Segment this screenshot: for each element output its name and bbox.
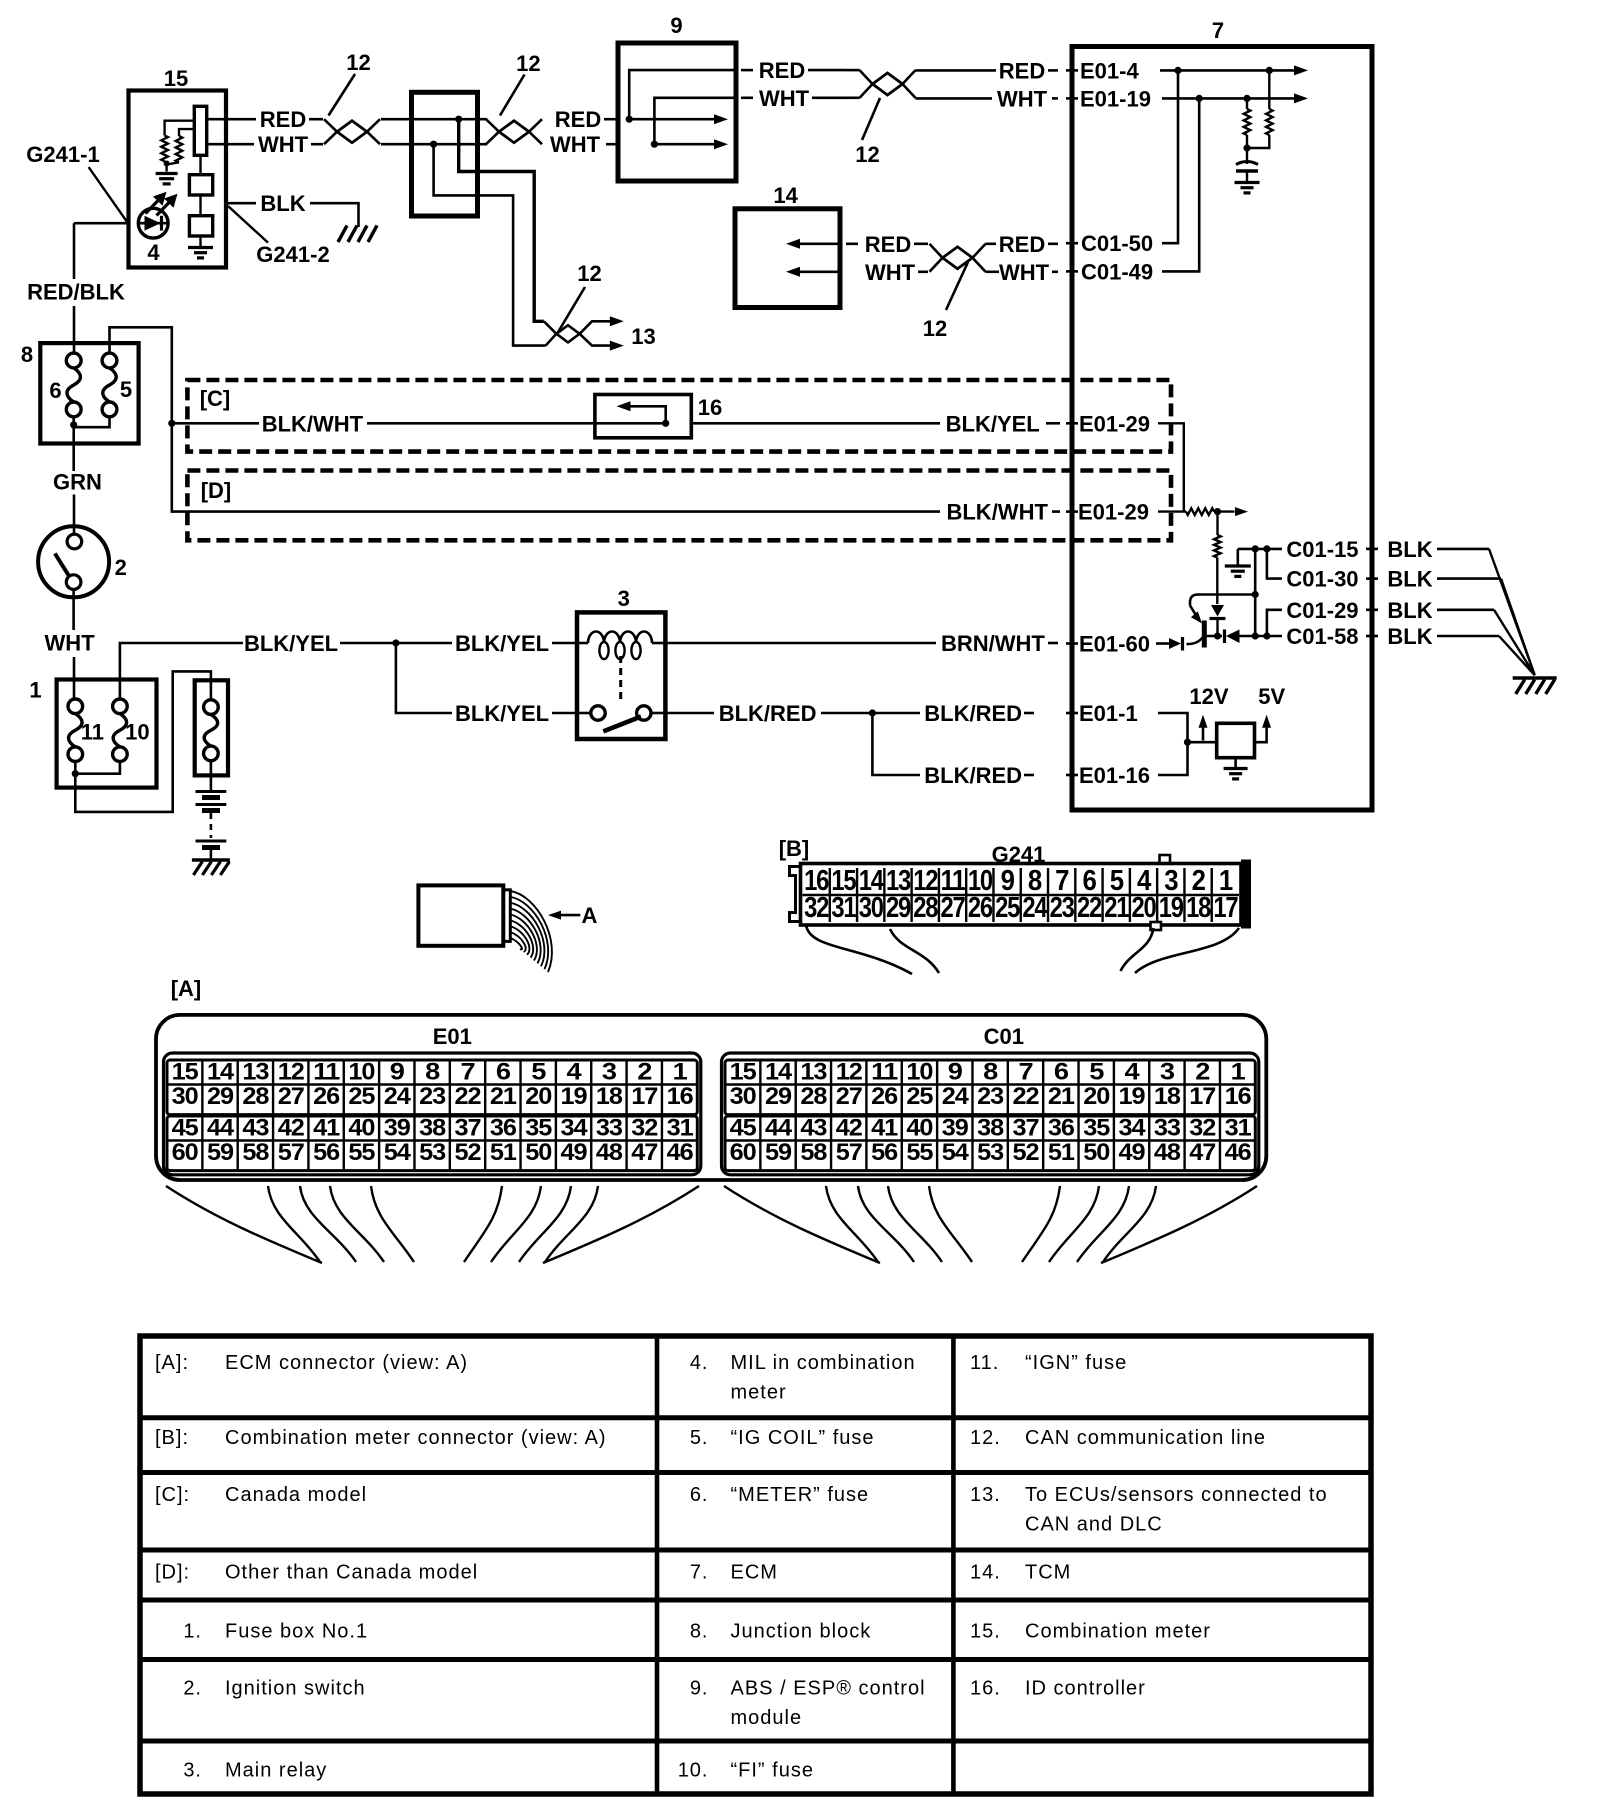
svg-text:E01: E01 [433, 1024, 472, 1049]
svg-text:58: 58 [242, 1139, 269, 1166]
pin E01-4 [1066, 69, 1078, 72]
wire fuse bottoms join [72, 417, 75, 426]
ground (BLK) [338, 226, 347, 243]
svg-text:15: 15 [164, 66, 188, 91]
svg-text:4: 4 [1125, 1059, 1141, 1086]
svg-text:5: 5 [120, 377, 132, 402]
svg-text:31: 31 [1225, 1115, 1252, 1142]
svg-text:33: 33 [1154, 1115, 1181, 1142]
pin E01-60 [1066, 642, 1078, 645]
svg-text:21: 21 [490, 1083, 517, 1110]
svg-text:5.: 5. [690, 1427, 709, 1449]
svg-text:60: 60 [172, 1139, 199, 1166]
svg-text:CAN communication line: CAN communication line [1025, 1427, 1266, 1449]
svg-text:E01-60: E01-60 [1079, 632, 1150, 657]
svg-text:RED: RED [999, 232, 1045, 257]
svg-text:7: 7 [1019, 1059, 1034, 1086]
svg-text:15: 15 [172, 1059, 199, 1086]
svg-text:12: 12 [836, 1059, 863, 1086]
svg-text:26: 26 [871, 1083, 898, 1110]
svg-text:13: 13 [800, 1059, 827, 1086]
connector [A] outer shell [156, 1015, 1266, 1180]
svg-text:20: 20 [1132, 892, 1156, 924]
svg-text:16.: 16. [970, 1677, 1001, 1699]
svg-text:39: 39 [942, 1115, 969, 1142]
svg-text:E01-4: E01-4 [1080, 58, 1139, 83]
regulator box [1217, 723, 1255, 757]
svg-text:BLK/YEL: BLK/YEL [946, 411, 1040, 436]
svg-text:6: 6 [1054, 1059, 1069, 1086]
svg-text:8: 8 [425, 1059, 440, 1086]
svg-text:12: 12 [923, 316, 947, 341]
svg-text:BLK/WHT: BLK/WHT [946, 500, 1048, 525]
relay dashed actuator line [619, 656, 622, 704]
svg-text:G241-1: G241-1 [26, 142, 99, 167]
svg-text:54: 54 [942, 1139, 970, 1166]
svg-text:[C]: [C] [200, 386, 231, 411]
svg-text:Combination meter: Combination meter [1025, 1620, 1211, 1642]
diode on E01-60 line [1156, 642, 1169, 645]
svg-text:2: 2 [637, 1059, 652, 1086]
legend table [140, 1336, 1371, 1794]
svg-text:14: 14 [765, 1059, 793, 1086]
svg-text:37: 37 [455, 1115, 482, 1142]
svg-text:51: 51 [1048, 1139, 1075, 1166]
svg-text:49: 49 [561, 1139, 588, 1166]
svg-text:Fuse box No.1: Fuse box No.1 [225, 1620, 368, 1642]
svg-text:ID controller: ID controller [1025, 1677, 1146, 1699]
diode (vertical, down) [1211, 605, 1224, 617]
svg-text:53: 53 [419, 1139, 446, 1166]
svg-text:58: 58 [800, 1139, 827, 1166]
wire E01-4 arrow [1160, 69, 1295, 72]
svg-text:13: 13 [242, 1059, 269, 1086]
main relay 3 [577, 612, 665, 739]
arrow into TCM (RED) [790, 243, 840, 246]
svg-text:11.: 11. [970, 1352, 999, 1374]
svg-text:C01: C01 [984, 1024, 1024, 1049]
svg-text:BLK/YEL: BLK/YEL [244, 631, 338, 656]
svg-text:meter: meter [731, 1382, 787, 1404]
svg-text:53: 53 [977, 1139, 1004, 1166]
svg-text:35: 35 [525, 1115, 552, 1142]
svg-text:16: 16 [667, 1083, 694, 1110]
svg-text:12: 12 [516, 51, 540, 76]
svg-text:26: 26 [313, 1083, 340, 1110]
svg-text:57: 57 [836, 1139, 863, 1166]
svg-text:18: 18 [596, 1083, 623, 1110]
svg-text:4: 4 [147, 240, 160, 265]
svg-text:3.: 3. [183, 1759, 202, 1781]
svg-text:BLK: BLK [1387, 567, 1432, 592]
wire C01-50 up to E01-4 [1162, 70, 1178, 243]
svg-text:27: 27 [278, 1083, 305, 1110]
transistor Q (MIL driver) [1202, 621, 1207, 648]
svg-text:17: 17 [1213, 892, 1237, 924]
wire WHT out right [741, 97, 753, 100]
svg-text:C01-29: C01-29 [1286, 598, 1358, 623]
svg-text:C01-15: C01-15 [1286, 537, 1358, 562]
wire BLK/RED bottom [872, 713, 920, 775]
vertical bus C01-15/58 [1254, 549, 1257, 636]
dashed box [D] other than Canada [187, 471, 1171, 541]
svg-text:55: 55 [348, 1139, 375, 1166]
svg-text:C01-49: C01-49 [1081, 259, 1153, 284]
svg-text:47: 47 [631, 1139, 658, 1166]
connector bar inside 15 [194, 106, 206, 155]
5V arrow [1255, 722, 1267, 742]
svg-text:52: 52 [455, 1139, 482, 1166]
resistor R in meter 2 [176, 136, 183, 162]
svg-text:52: 52 [1013, 1139, 1040, 1166]
relay switch [591, 706, 605, 720]
svg-text:12.: 12. [970, 1427, 1001, 1449]
svg-text:5: 5 [531, 1059, 546, 1086]
svg-text:Canada model: Canada model [225, 1484, 367, 1506]
svg-text:1: 1 [1231, 1059, 1246, 1086]
ECM box 7 [1072, 47, 1372, 811]
svg-text:4.: 4. [690, 1352, 709, 1374]
svg-text:39: 39 [384, 1115, 411, 1142]
CAN twist 12 (D) [930, 244, 986, 272]
wire branch down (WHT) [434, 144, 546, 345]
svg-text:25: 25 [906, 1083, 933, 1110]
wire BLK/WHT [C] [168, 420, 175, 427]
svg-text:17: 17 [631, 1083, 658, 1110]
svg-text:28: 28 [913, 892, 938, 924]
capacitor [1246, 148, 1248, 164]
svg-text:“FI” fuse: “FI” fuse [731, 1759, 814, 1781]
svg-text:E01-29: E01-29 [1079, 411, 1150, 436]
svg-text:29: 29 [765, 1083, 792, 1110]
svg-text:50: 50 [1083, 1139, 1110, 1166]
svg-text:1.: 1. [183, 1620, 202, 1642]
svg-text:9: 9 [948, 1059, 963, 1086]
svg-text:RED: RED [759, 58, 805, 83]
svg-text:33: 33 [596, 1115, 623, 1142]
svg-text:23: 23 [1050, 892, 1075, 924]
ground under battery [192, 858, 230, 861]
svg-text:ABS / ESP® control: ABS / ESP® control [731, 1677, 926, 1699]
svg-text:28: 28 [242, 1083, 269, 1110]
svg-text:C01-50: C01-50 [1081, 231, 1153, 256]
svg-text:12: 12 [346, 50, 370, 75]
svg-text:37: 37 [1013, 1115, 1040, 1142]
svg-text:[B]:: [B]: [155, 1427, 189, 1449]
svg-text:40: 40 [906, 1115, 933, 1142]
svg-text:36: 36 [1048, 1115, 1075, 1142]
svg-text:17: 17 [1189, 1083, 1216, 1110]
combination meter box 15 [129, 91, 227, 268]
svg-text:C01-30: C01-30 [1286, 567, 1358, 592]
svg-text:6.: 6. [690, 1484, 709, 1506]
svg-text:BLK: BLK [1387, 624, 1432, 649]
svg-text:12V: 12V [1189, 684, 1228, 709]
svg-text:“IG COIL” fuse: “IG COIL” fuse [731, 1427, 875, 1449]
svg-text:“IGN” fuse: “IGN” fuse [1025, 1352, 1127, 1374]
ground under capacitor [1235, 181, 1260, 184]
svg-text:8: 8 [983, 1059, 998, 1086]
fuse (main) [204, 700, 219, 715]
svg-text:36: 36 [490, 1115, 517, 1142]
fuse box 1 [57, 680, 157, 788]
E01 pin grid [164, 1053, 701, 1175]
svg-text:47: 47 [1189, 1139, 1216, 1166]
svg-text:46: 46 [1225, 1139, 1252, 1166]
svg-text:BLK/YEL: BLK/YEL [455, 631, 549, 656]
pin E01-19 [1066, 97, 1078, 100]
svg-text:15: 15 [730, 1059, 757, 1086]
svg-text:34: 34 [561, 1115, 589, 1142]
svg-text:31: 31 [667, 1115, 694, 1142]
svg-text:WHT: WHT [550, 132, 601, 157]
collector line to junction [1252, 591, 1259, 598]
svg-text:23: 23 [419, 1083, 446, 1110]
svg-text:6: 6 [496, 1059, 511, 1086]
svg-text:19: 19 [561, 1083, 588, 1110]
svg-text:14.: 14. [970, 1562, 1001, 1584]
svg-text:MIL in combination: MIL in combination [731, 1352, 916, 1374]
svg-text:20: 20 [1083, 1083, 1110, 1110]
pin C01-15 [1238, 548, 1282, 551]
svg-text:25: 25 [995, 892, 1020, 924]
svg-text:30: 30 [859, 892, 883, 924]
svg-text:RED/BLK: RED/BLK [27, 279, 125, 304]
pin E01-16 [1066, 774, 1078, 777]
CAN twist 12 (E) to 13 [544, 321, 568, 334]
wire C01-49 up to E01-19 [1162, 98, 1199, 271]
wire bundle [510, 891, 552, 972]
svg-text:38: 38 [977, 1115, 1004, 1142]
svg-text:12: 12 [278, 1059, 305, 1086]
svg-text:10: 10 [348, 1059, 375, 1086]
svg-text:E01-1: E01-1 [1079, 701, 1138, 726]
svg-text:42: 42 [836, 1115, 863, 1142]
svg-text:32: 32 [1189, 1115, 1216, 1142]
junction block 8 [40, 343, 138, 443]
svg-text:60: 60 [730, 1139, 757, 1166]
pin E01-1 [1066, 712, 1078, 715]
svg-text:BLK/RED: BLK/RED [924, 763, 1022, 788]
CAN twist 12 (B) [478, 118, 488, 121]
svg-text:[A]: [A] [171, 976, 202, 1001]
wire WHT down to fuse box [72, 589, 75, 630]
svg-text:9.: 9. [690, 1677, 709, 1699]
svg-text:Main relay: Main relay [225, 1759, 327, 1781]
MIL lamp 4 (LED) [138, 208, 168, 238]
svg-text:3: 3 [602, 1059, 617, 1086]
wire [165, 121, 195, 136]
svg-text:7.: 7. [690, 1562, 709, 1584]
wire RED through box [381, 118, 459, 121]
svg-text:19: 19 [1119, 1083, 1146, 1110]
svg-text:19: 19 [1159, 892, 1184, 924]
svg-text:2: 2 [115, 555, 127, 580]
wire [165, 161, 167, 164]
svg-text:10.: 10. [678, 1759, 709, 1781]
svg-text:[A]:: [A]: [155, 1352, 189, 1374]
terminating resistor 1 [1246, 98, 1248, 109]
svg-text:35: 35 [1083, 1115, 1110, 1142]
svg-text:28: 28 [800, 1083, 827, 1110]
svg-text:BLK: BLK [1387, 537, 1432, 562]
svg-text:WHT: WHT [759, 86, 810, 111]
pull resistor vertical [1216, 512, 1218, 535]
svg-text:44: 44 [207, 1115, 235, 1142]
svg-text:41: 41 [871, 1115, 898, 1142]
svg-text:32: 32 [631, 1115, 658, 1142]
svg-text:29: 29 [886, 892, 911, 924]
svg-text:59: 59 [765, 1139, 792, 1166]
wire [199, 155, 201, 174]
svg-text:BLK/RED: BLK/RED [719, 701, 817, 726]
svg-text:9: 9 [390, 1059, 405, 1086]
svg-text:6: 6 [49, 378, 61, 403]
wire WHT inside with arrow [651, 141, 658, 148]
svg-text:WHT: WHT [865, 260, 916, 285]
wire BLK + ground from meter [226, 202, 256, 205]
svg-text:50: 50 [525, 1139, 552, 1166]
svg-text:45: 45 [172, 1115, 199, 1142]
pin C01-29 elbow [1267, 610, 1282, 636]
svg-text:RED: RED [865, 232, 911, 257]
svg-text:13: 13 [631, 324, 655, 349]
wire BLK/YEL bottom [396, 643, 452, 713]
svg-text:40: 40 [348, 1115, 375, 1142]
harness leads under G241 [806, 925, 912, 974]
svg-text:WHT: WHT [999, 260, 1050, 285]
wire fuse bottoms [74, 762, 77, 774]
svg-text:To ECUs/sensors connected to: To ECUs/sensors connected to [1025, 1484, 1328, 1506]
CAN twist 12 (A) [324, 119, 380, 144]
svg-text:11: 11 [313, 1059, 340, 1086]
svg-text:G241-2: G241-2 [256, 242, 329, 267]
svg-text:Combination meter connector (v: Combination meter connector (view: A) [225, 1427, 607, 1449]
svg-text:25: 25 [348, 1083, 375, 1110]
connector pin squares G241 in meter [189, 175, 212, 195]
svg-text:RED: RED [260, 107, 306, 132]
svg-text:Other than Canada model: Other than Canada model [225, 1562, 478, 1584]
svg-text:23: 23 [977, 1083, 1004, 1110]
fuse 6 "METER" [66, 353, 81, 368]
battery [196, 790, 227, 793]
svg-text:7: 7 [1212, 18, 1224, 43]
svg-text:9: 9 [670, 13, 682, 38]
svg-text:E01-16: E01-16 [1079, 763, 1150, 788]
svg-text:E01-29: E01-29 [1078, 500, 1149, 525]
svg-text:56: 56 [871, 1139, 898, 1166]
svg-text:45: 45 [730, 1115, 757, 1142]
svg-text:ECM: ECM [731, 1562, 778, 1584]
svg-text:C01-58: C01-58 [1286, 624, 1358, 649]
arrow into TCM (WHT) [790, 270, 840, 273]
fuse 11 "IGN" [68, 699, 83, 714]
svg-text:[B]: [B] [779, 836, 810, 861]
svg-text:16: 16 [698, 395, 722, 420]
svg-text:7: 7 [461, 1059, 476, 1086]
svg-text:20: 20 [525, 1083, 552, 1110]
svg-text:30: 30 [172, 1083, 199, 1110]
svg-text:16: 16 [1225, 1083, 1252, 1110]
svg-text:RED: RED [555, 107, 601, 132]
dashed box [C] Canada model [187, 380, 1171, 452]
svg-text:1: 1 [29, 678, 41, 703]
wire branch down (RED) [459, 119, 544, 321]
pin C01-30 elbow [1263, 545, 1270, 552]
svg-text:GRN: GRN [53, 470, 102, 495]
svg-text:27: 27 [941, 892, 965, 924]
wire WHT through box [381, 143, 434, 146]
svg-text:30: 30 [730, 1083, 757, 1110]
TCM box 14 [735, 209, 840, 308]
svg-text:48: 48 [1154, 1139, 1181, 1166]
connector box (CAN junction) [412, 92, 478, 216]
svg-text:57: 57 [278, 1139, 305, 1166]
svg-text:BLK: BLK [1387, 598, 1432, 623]
svg-text:22: 22 [455, 1083, 482, 1110]
svg-text:13.: 13. [970, 1484, 1001, 1506]
wire E01-19 arrow [1162, 97, 1295, 100]
svg-text:“METER” fuse: “METER” fuse [731, 1484, 870, 1506]
wire E01-29C to E01-29D [1158, 423, 1184, 511]
svg-text:34: 34 [1119, 1115, 1147, 1142]
terminating resistor 2 [1268, 70, 1270, 109]
svg-text:24: 24 [1022, 892, 1047, 924]
svg-text:55: 55 [906, 1139, 933, 1166]
pin E01-29 (C) [1066, 422, 1078, 425]
wire GRN down to ignition switch [72, 426, 75, 471]
svg-text:43: 43 [242, 1115, 269, 1142]
svg-text:29: 29 [207, 1083, 234, 1110]
svg-text:module: module [731, 1707, 803, 1729]
wire RED inside with arrow [626, 116, 633, 123]
ignition switch 2 [38, 526, 109, 597]
wire WHT out of meter [207, 143, 254, 146]
svg-text:14: 14 [207, 1059, 235, 1086]
svg-text:22: 22 [1077, 892, 1101, 924]
svg-text:38: 38 [419, 1115, 446, 1142]
svg-text:8.: 8. [690, 1620, 709, 1642]
svg-text:BLK/RED: BLK/RED [924, 701, 1022, 726]
svg-text:59: 59 [207, 1139, 234, 1166]
svg-text:[D]: [D] [201, 478, 232, 503]
wire BLK/YEL riser from fuse 10 [120, 643, 243, 699]
svg-text:E01-19: E01-19 [1080, 86, 1151, 111]
svg-text:56: 56 [313, 1139, 340, 1166]
wire loop to main fuse [75, 671, 211, 812]
svg-text:41: 41 [313, 1115, 340, 1142]
svg-text:12: 12 [855, 142, 879, 167]
12V arrow [1202, 722, 1205, 741]
svg-text:42: 42 [278, 1115, 305, 1142]
svg-text:BLK/WHT: BLK/WHT [262, 411, 364, 436]
svg-text:12: 12 [577, 261, 601, 286]
svg-text:BLK/YEL: BLK/YEL [455, 701, 549, 726]
resistor R in meter 1 [161, 136, 168, 162]
svg-text:8: 8 [21, 342, 33, 367]
svg-text:[C]:: [C]: [155, 1484, 190, 1506]
harness leads under [A] [166, 1186, 322, 1263]
internal resistor E01-29 [1158, 510, 1186, 512]
svg-text:Junction block: Junction block [731, 1620, 872, 1642]
svg-text:2: 2 [1195, 1059, 1210, 1086]
svg-text:5: 5 [1089, 1059, 1104, 1086]
svg-text:54: 54 [384, 1139, 412, 1166]
ABS/ESP control module 9 [618, 43, 736, 181]
svg-text:24: 24 [942, 1083, 970, 1110]
C01 pin grid [722, 1053, 1259, 1175]
svg-text:WHT: WHT [45, 630, 96, 655]
